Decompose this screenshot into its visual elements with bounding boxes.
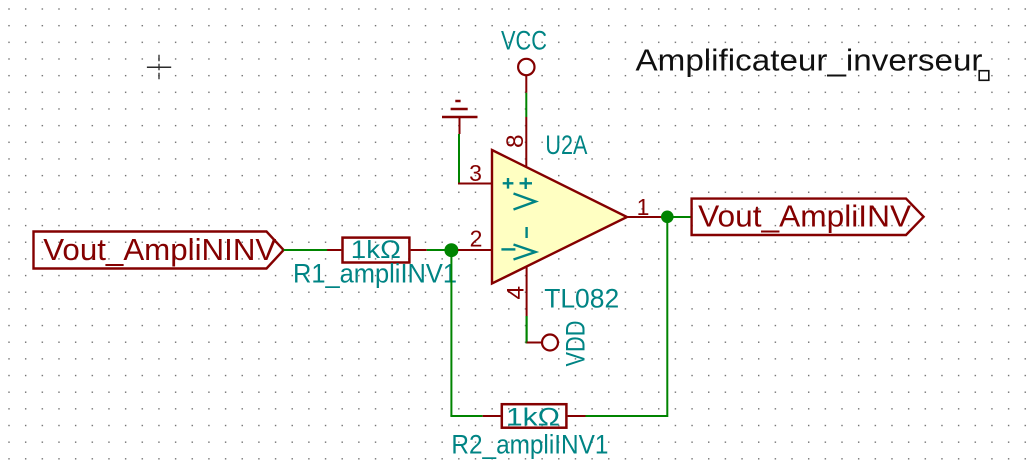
ground	[442, 101, 478, 134]
svg-text:4: 4	[503, 286, 530, 300]
svg-text:Vout_AmpliNINV: Vout_AmpliNINV	[43, 233, 277, 267]
wire ground to pin 3	[458, 134, 460, 185]
op-amp U2A triangle	[492, 150, 627, 284]
resistor R2 1kΩ	[451, 403, 608, 459]
pin 2	[458, 249, 492, 251]
wire R2 to output junction	[586, 415, 668, 417]
svg-text:TL082: TL082	[544, 284, 619, 314]
svg-text:Vout_AmpliINV: Vout_AmpliINV	[698, 199, 912, 233]
svg-text:VDD: VDD	[561, 321, 591, 367]
wire junction to output label	[667, 216, 691, 218]
global label Vout_AmpliNINV	[34, 232, 284, 269]
svg-text:1kΩ: 1kΩ	[506, 403, 560, 431]
pin 2 name marker -	[501, 248, 515, 250]
pin 3 name marker +	[503, 178, 514, 189]
wire up to output junction	[666, 217, 668, 417]
wire label to R1	[284, 249, 328, 251]
pin 8 name marker V+	[514, 178, 536, 210]
power symbol VCC	[501, 25, 547, 93]
global label Vout_AmpliINV	[692, 199, 924, 235]
junction at output	[661, 211, 674, 224]
wire junction down	[450, 250, 452, 416]
pin 3	[458, 183, 492, 185]
wire pin 4 to VDD	[525, 316, 527, 344]
svg-text:8: 8	[502, 134, 529, 148]
cursor crosshair	[147, 55, 171, 80]
title text Amplificateur_inverseur	[636, 43, 989, 81]
svg-text:VCC: VCC	[501, 25, 547, 55]
resistor R1 1kΩ	[293, 236, 457, 289]
pin 4 name marker V-	[514, 227, 536, 260]
junction at pin 2	[444, 243, 458, 257]
power symbol VDD	[527, 321, 591, 367]
svg-text:Amplificateur_inverseur: Amplificateur_inverseur	[636, 43, 983, 78]
pin 1	[627, 216, 662, 218]
svg-text:R2_ampliINV1: R2_ampliINV1	[451, 430, 608, 460]
svg-text:U2A: U2A	[545, 130, 587, 160]
pin 4	[526, 266, 528, 316]
svg-text:3: 3	[469, 160, 482, 186]
wire R1 to junction	[427, 249, 452, 251]
svg-text:1: 1	[637, 194, 650, 220]
wire to R2 left	[450, 415, 482, 417]
wire VCC to pin 8	[525, 93, 527, 117]
svg-text:R1_ampliINV1: R1_ampliINV1	[293, 259, 457, 289]
pin 8	[525, 117, 527, 166]
svg-text:2: 2	[470, 225, 483, 251]
